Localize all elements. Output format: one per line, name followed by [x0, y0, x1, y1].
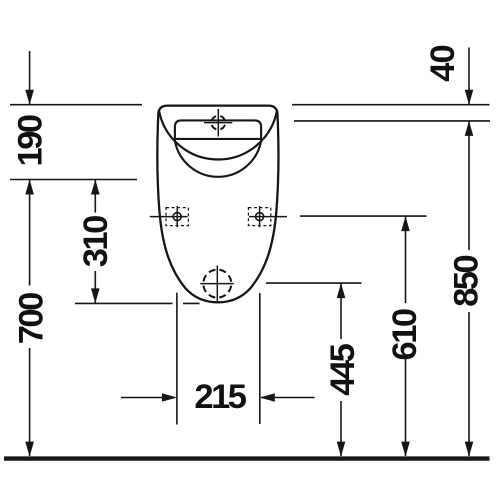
floor line: [4, 456, 490, 460]
svg-text:700: 700: [13, 292, 51, 345]
drain hole dashed circle: [203, 270, 231, 298]
left mount hole dashed square: [166, 208, 188, 226]
right mount hole dashed square: [248, 208, 270, 226]
190 bottom extension: [10, 179, 137, 181]
svg-text:610: 610: [386, 308, 424, 361]
arrow 215 right: [162, 393, 177, 402]
dim 850 line: [468, 121, 470, 250]
svg-text:40: 40: [424, 44, 462, 82]
svg-text:310: 310: [77, 215, 115, 268]
urinal outer body outline: [157, 106, 278, 303]
right mount hole circle: [256, 213, 264, 221]
arrow 850 down: [465, 442, 474, 457]
dim 40 line: [468, 48, 470, 105]
arrow 215 left: [260, 393, 275, 402]
215 right extension: [259, 293, 261, 424]
dim 310 line: [94, 180, 96, 213]
dim 700 line: [29, 180, 31, 286]
arrow 610 up: [401, 216, 410, 231]
arrow 610 down: [401, 442, 410, 457]
rim chord line: [175, 138, 261, 140]
svg-text:850: 850: [447, 254, 485, 307]
arrow 190 top down: [25, 90, 34, 105]
extension lines: [10, 105, 490, 425]
arrow 445 up: [337, 283, 346, 298]
right mount hole crosshair: [249, 206, 287, 227]
arrow 310 down: [91, 288, 100, 303]
rim edge extension right: [294, 120, 490, 122]
310 bottom extension: [75, 302, 173, 304]
arrow 850 up: [465, 121, 474, 136]
top edge extension right: [292, 104, 490, 106]
left mount hole crosshair: [150, 206, 188, 227]
dim 215 line left: [121, 397, 175, 399]
445 top extension: [266, 282, 362, 284]
arrow 310 up: [91, 180, 100, 195]
dim 610 line: [405, 217, 407, 304]
top hole crosshair: [204, 109, 232, 137]
dim 190 line: [29, 51, 31, 104]
svg-text:190: 190: [12, 114, 50, 167]
dimension lines: [30, 48, 469, 457]
urinal inner rim outline: [175, 120, 261, 176]
dim 215 line right: [261, 397, 315, 399]
drain hole crosshair: [200, 266, 234, 303]
svg-text:445: 445: [324, 343, 362, 396]
215 left extension: [176, 293, 178, 425]
arrow 700 down: [25, 442, 34, 457]
dim 445 line: [340, 284, 342, 340]
left mount hole circle: [173, 213, 181, 221]
arrow 445 down: [337, 442, 346, 457]
urinal outer bowl arc: [159, 110, 277, 159]
top hole dashed circle: [211, 116, 225, 130]
svg-text:215: 215: [194, 378, 247, 416]
top edge extension left: [10, 104, 142, 106]
arrowheads: [25, 90, 473, 457]
arrow 40 down: [465, 90, 474, 105]
610 top extension: [300, 215, 427, 217]
arrow 700 up: [25, 180, 34, 195]
